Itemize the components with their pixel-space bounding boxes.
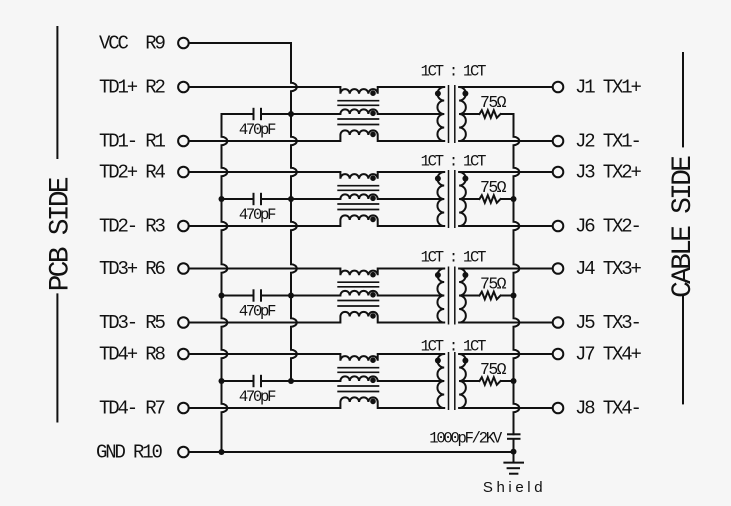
svg-text:J2 TX1-: J2 TX1- [575,131,640,153]
svg-text:470pF: 470pF [239,388,276,406]
svg-text:J8 TX4-: J8 TX4- [575,398,640,420]
svg-text:1CT : 1CT: 1CT : 1CT [421,63,486,81]
svg-text:TD2+ R4: TD2+ R4 [99,162,166,184]
svg-text:J1 TX1+: J1 TX1+ [575,77,642,99]
svg-text:1000pF/2KV: 1000pF/2KV [429,430,503,448]
svg-text:Shield: Shield [483,479,546,496]
svg-text:J4 TX3+: J4 TX3+ [575,258,642,280]
svg-text:J5 TX3-: J5 TX3- [575,312,640,334]
svg-text:1CT : 1CT: 1CT : 1CT [421,338,486,356]
svg-text:GND R10: GND R10 [96,442,163,464]
svg-text:TD3+ R6: TD3+ R6 [99,258,166,280]
svg-text:470pF: 470pF [239,206,276,224]
svg-text:TD4+ R8: TD4+ R8 [99,344,166,366]
svg-text:PCB SIDE: PCB SIDE [46,177,77,291]
svg-text:VCC R9: VCC R9 [99,33,166,55]
svg-text:CABLE SIDE: CABLE SIDE [668,156,699,298]
svg-text:TD3- R5: TD3- R5 [99,312,166,334]
svg-text:470pF: 470pF [239,303,276,321]
svg-text:TD1- R1: TD1- R1 [99,131,166,153]
svg-text:J7 TX4+: J7 TX4+ [575,344,642,366]
svg-text:J6 TX2-: J6 TX2- [575,216,640,238]
svg-text:470pF: 470pF [239,121,276,139]
svg-text:J3 TX2+: J3 TX2+ [575,162,642,184]
svg-text:TD2- R3: TD2- R3 [99,216,166,238]
svg-text:TD4- R7: TD4- R7 [99,398,165,420]
svg-text:TD1+ R2: TD1+ R2 [99,77,166,99]
svg-text:1CT : 1CT: 1CT : 1CT [421,153,486,171]
svg-text:1CT : 1CT: 1CT : 1CT [421,249,486,267]
